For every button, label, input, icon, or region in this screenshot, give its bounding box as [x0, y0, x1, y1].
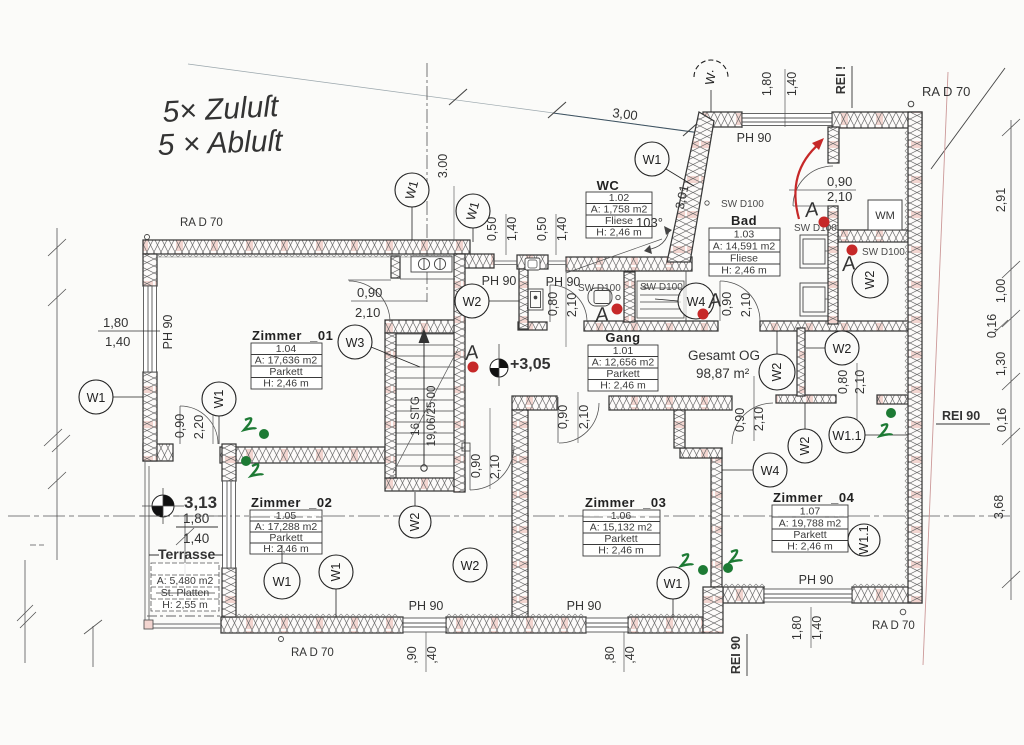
symbol circle W4 gang [655, 283, 714, 319]
svg-text:WC: WC [597, 178, 620, 193]
svg-text:,40: ,40 [425, 646, 439, 663]
symbol circle W1.1 z4 [829, 417, 908, 453]
symbol circle W2 mid [806, 331, 859, 365]
door corridor to Zimmer_02/03 [462, 408, 514, 490]
svg-text:Fliese: Fliese [605, 215, 633, 227]
svg-text:2,91: 2,91 [994, 188, 1008, 212]
svg-text:3,68: 3,68 [992, 495, 1006, 519]
svg-text:3,00: 3,00 [612, 105, 639, 123]
svg-text:H: 2,46 m: H: 2,46 m [787, 541, 833, 553]
svg-text:WM: WM [875, 210, 895, 222]
symbol circle W4 z4 [722, 453, 787, 487]
symbol circle W1 z2 rotated [319, 555, 353, 617]
svg-text:A: 12,656 m2: A: 12,656 m2 [592, 357, 655, 369]
symbol circle W2 zimmer02 [453, 548, 487, 582]
svg-text:98,87 m²: 98,87 m² [696, 366, 750, 381]
wall top PH90 left piece [703, 112, 742, 127]
wall divider Zimmer_02/03 [512, 410, 528, 617]
annotation red arrow bad [795, 143, 820, 219]
annotation red A bad [803, 198, 820, 222]
wall WC diagonal [667, 112, 714, 262]
wall left lower [143, 372, 157, 461]
window Zimmer_02 left [223, 481, 236, 568]
svg-text:1.06: 1.06 [611, 510, 632, 522]
symbol circle W3 [338, 325, 420, 367]
wall stair bottom band [385, 478, 465, 491]
svg-text:W1.1: W1.1 [857, 525, 871, 554]
annotation green Z pair z2 top a [244, 418, 256, 430]
svg-text:1.03: 1.03 [734, 229, 755, 241]
svg-text:Zimmer _03: Zimmer _03 [585, 495, 666, 510]
node Gang left partition line [685, 271, 687, 323]
wall stair top band [385, 320, 465, 333]
annotation green Z pair z2 top b [241, 456, 251, 466]
table Zimmer_01 [251, 343, 322, 389]
table Terrasse [151, 563, 219, 611]
svg-text:,90: ,90 [405, 646, 419, 663]
table Zimmer_03 [583, 510, 660, 556]
node WC corner angle line [566, 239, 662, 273]
svg-text:W·: W· [703, 68, 720, 86]
svg-text:1,80: 1,80 [103, 315, 128, 330]
svg-text:W1: W1 [643, 153, 662, 167]
wall divider Zimmer_03/04 [711, 458, 722, 587]
svg-text:2,10: 2,10 [565, 293, 579, 317]
symbol circle W1.1 right rotated [848, 524, 880, 556]
wall left upper [143, 254, 157, 286]
svg-text:3.00: 3.00 [436, 154, 450, 178]
symbol circle W2 z4 rotated [788, 403, 822, 463]
svg-text:RA D 70: RA D 70 [180, 217, 223, 229]
svg-text:PH 90: PH 90 [799, 573, 834, 587]
svg-text:16 STG: 16 STG [410, 396, 422, 436]
svg-text:0,90: 0,90 [556, 405, 570, 429]
svg-text:1,80: 1,80 [790, 616, 804, 640]
svg-text:2,10: 2,10 [488, 455, 502, 479]
label +3,05 benchmark [490, 344, 551, 386]
table Bad [709, 228, 780, 276]
symbol circle W1 z3 [657, 567, 689, 617]
svg-text:+3,05: +3,05 [510, 356, 551, 373]
node stair axis vertical dash-dot [426, 63, 428, 302]
svg-text:0,90: 0,90 [173, 414, 187, 438]
svg-text:1,80: 1,80 [760, 72, 774, 96]
symbol circle W2 corridor [455, 284, 519, 318]
svg-text:Zimmer _04: Zimmer _04 [773, 490, 855, 505]
wall stair left [385, 333, 396, 478]
svg-text:1.02: 1.02 [609, 192, 630, 204]
wall corridor sink vertical [519, 269, 528, 329]
svg-text:W2: W2 [863, 271, 877, 290]
svg-text:,40: ,40 [623, 646, 637, 663]
svg-text:W1: W1 [273, 575, 292, 589]
svg-text:W1: W1 [212, 390, 226, 409]
wall corridor top left piece [455, 254, 494, 268]
window Zimmer_04 bottom [764, 589, 852, 602]
symbol circle W dot top dashed [694, 60, 728, 112]
svg-text:RA D 70: RA D 70 [922, 84, 970, 99]
symbol circle W1 terrasse area [264, 545, 300, 599]
node axis top leader line 3,00 [188, 64, 710, 136]
annotation red A gang toilet [593, 303, 610, 327]
svg-text:Parkett: Parkett [269, 366, 302, 378]
svg-text:A: 14,591 m2: A: 14,591 m2 [713, 241, 776, 253]
annotation green Z pair z3 [681, 554, 693, 566]
node right dimension line [994, 119, 1020, 600]
svg-text:A: A [706, 289, 723, 313]
door sliding corridor 2 [548, 261, 566, 265]
fixture corridor washbasin [527, 289, 543, 310]
svg-text:Terrasse: Terrasse [158, 546, 216, 562]
svg-text:1.07: 1.07 [800, 506, 821, 518]
svg-text:SW D100: SW D100 [640, 282, 683, 293]
svg-text:Gang: Gang [605, 330, 640, 345]
svg-text:1.04: 1.04 [276, 343, 297, 355]
wall Zimmer_04 top right [877, 395, 908, 404]
door Bad [793, 166, 833, 206]
door Zimmer_01/02 [180, 406, 218, 444]
svg-text:H: 2,46 m: H: 2,46 m [263, 378, 309, 390]
symbol circle W2 gesamt rotated [759, 331, 795, 390]
svg-text:1.01: 1.01 [613, 345, 634, 357]
svg-text:2,10: 2,10 [739, 293, 753, 317]
door arc Zimmer_01 entry [348, 280, 391, 322]
svg-text:SW D100: SW D100 [721, 199, 764, 210]
door WC [550, 285, 587, 322]
wall step vertical [674, 410, 685, 448]
annotation red A stair [463, 341, 480, 365]
fixture kitchen counter circles [400, 256, 455, 279]
wall WC bottom [566, 257, 692, 271]
svg-text:RA D 70: RA D 70 [291, 647, 334, 659]
node terrace corner post [144, 620, 153, 629]
door Gang to Zimmer_03 [558, 392, 599, 443]
node angle arc 103 [644, 226, 672, 254]
svg-text:Bad: Bad [731, 213, 757, 228]
wall Zimmer_02 left upper [222, 444, 236, 481]
svg-text:2,10: 2,10 [853, 370, 867, 394]
door sliding corridor 1 [494, 261, 517, 265]
wall bottom segment c [628, 617, 703, 633]
door arc Gang bottom to Zimmer_04 [732, 403, 773, 444]
svg-text:W4: W4 [761, 464, 780, 478]
svg-text:A: A [463, 341, 480, 365]
svg-text:W3: W3 [346, 336, 365, 350]
wall Zimmer_04 bottom right [852, 587, 922, 603]
svg-text:A: 5,480 m2: A: 5,480 m2 [157, 575, 214, 587]
svg-text:1,40: 1,40 [810, 616, 824, 640]
wall Bad door jamb [828, 127, 839, 163]
table Gang [588, 345, 658, 391]
wall left return stub [143, 444, 173, 461]
svg-text:W2: W2 [798, 437, 812, 456]
wall top Zimmer_01 [143, 240, 470, 254]
svg-text:2,10: 2,10 [577, 405, 591, 429]
wall Zimmer_02 left lower [222, 568, 236, 617]
svg-text:0,90: 0,90 [357, 285, 382, 300]
wall step horizontal [680, 448, 722, 458]
symbol circle W1 zimmer01 rotated [202, 382, 236, 444]
svg-text:SW D100: SW D100 [578, 283, 621, 294]
svg-text:A: A [593, 303, 610, 327]
svg-text:2,10: 2,10 [355, 305, 380, 320]
node insulation sawtooth right wall [905, 130, 908, 580]
node insulation sawtooth top wall [157, 256, 455, 258]
door arc Gang to Zimmer_04 [720, 281, 760, 321]
svg-text:PH 90: PH 90 [546, 275, 581, 289]
wall bottom segment a [221, 617, 403, 633]
svg-text:1,30: 1,30 [994, 352, 1008, 376]
wall Gang top right segment [760, 321, 908, 331]
svg-text:H: 2,46 m: H: 2,46 m [600, 380, 646, 392]
svg-text:REI !: REI ! [834, 66, 848, 94]
wall Bad vanity [828, 206, 838, 324]
svg-text:Parkett: Parkett [604, 533, 637, 545]
svg-text:Parkett: Parkett [606, 368, 639, 380]
symbol circle W2 wm room rotated [852, 262, 888, 298]
wall outlines group [143, 112, 922, 633]
svg-text:1,40: 1,40 [555, 217, 569, 241]
svg-text:Fliese: Fliese [730, 253, 758, 265]
label 3,13 benchmark [142, 488, 218, 546]
fixture corridor small sink in block [525, 258, 540, 270]
wall Gang top left segment [584, 321, 718, 331]
node top right boundary lines [931, 68, 1005, 169]
fixture shelf rack [637, 281, 684, 318]
svg-text:1,40: 1,40 [785, 72, 799, 96]
svg-text:H: 2,46 m: H: 2,46 m [721, 265, 767, 277]
svg-text:W4: W4 [687, 295, 706, 309]
svg-text:A: A [840, 252, 857, 276]
wall corridor sink block [517, 255, 548, 269]
svg-text:0,90: 0,90 [733, 408, 747, 432]
wall Zimmer_04 bottom left [723, 587, 764, 603]
svg-text:1,00: 1,00 [994, 279, 1008, 303]
svg-text:103°: 103° [636, 215, 663, 230]
svg-text:2,20: 2,20 [192, 415, 206, 439]
node dimension tick line corridor top [453, 186, 455, 241]
svg-text:W1: W1 [87, 391, 106, 405]
wall Zimmer_03 top right [609, 396, 732, 410]
svg-text:H: 2,55 m: H: 2,55 m [162, 599, 208, 611]
svg-text:PH 90: PH 90 [737, 131, 772, 145]
wall counter stub [391, 256, 400, 278]
wall WC toilet divider [624, 272, 635, 322]
svg-text:W1: W1 [664, 577, 683, 591]
node centerline over tables [140, 516, 848, 517]
window bottom 1 [403, 618, 446, 632]
svg-text:REI 90: REI 90 [729, 636, 743, 674]
annotation red A w4 [706, 289, 723, 313]
svg-text:RA D 70: RA D 70 [872, 620, 915, 632]
window bottom 2 [586, 618, 628, 632]
svg-text:3,13: 3,13 [184, 493, 217, 512]
annotation green Z pair z4 right [886, 408, 896, 418]
svg-text:5 × Abluſt: 5 × Abluſt [157, 125, 285, 162]
svg-text:1,80: 1,80 [183, 511, 209, 526]
wall bottom segment b [446, 617, 586, 633]
label 0,90 2,20 near terrace vertical line [212, 415, 214, 444]
window top PH90 [742, 114, 832, 126]
svg-text:W2: W2 [408, 513, 422, 532]
svg-text:A: 1,758 m2: A: 1,758 m2 [591, 204, 648, 216]
svg-text:A: 19,788 m2: A: 19,788 m2 [779, 518, 842, 530]
svg-text:5× Zuluſt: 5× Zuluſt [162, 90, 281, 129]
svg-text:W2: W2 [770, 363, 784, 382]
svg-text:W1.1: W1.1 [832, 429, 861, 443]
annotation green Z pair z4 left [723, 563, 733, 573]
symbol circle W1 top a rotated [395, 173, 429, 240]
table Zimmer_04 [772, 505, 848, 552]
svg-text:0,90: 0,90 [720, 292, 734, 316]
terrace boundary [145, 461, 221, 629]
svg-text:Parkett: Parkett [793, 529, 826, 541]
symbol circle W1 wc diagonal [635, 142, 694, 186]
svg-text:SW D100: SW D100 [862, 247, 905, 258]
svg-text:1,40: 1,40 [105, 334, 130, 349]
svg-text:REI 90: REI 90 [942, 409, 980, 423]
svg-text:H: 2,46 m: H: 2,46 m [598, 545, 644, 557]
svg-text:0,16: 0,16 [985, 314, 999, 338]
fixture toilet [588, 288, 620, 306]
svg-text:0,50: 0,50 [535, 217, 549, 241]
wall Zimmer_03 top left [512, 396, 557, 410]
wall corridor sink bottom piece [518, 322, 547, 330]
annotation red A wm [840, 252, 857, 276]
svg-text:0,90: 0,90 [469, 454, 483, 478]
svg-text:PH 90: PH 90 [482, 274, 517, 288]
wall right exterior [908, 112, 922, 603]
stair treads [396, 334, 454, 466]
node main horizontal centerline [8, 515, 1012, 517]
svg-text:PH 90: PH 90 [161, 315, 175, 350]
node WC door leader line [565, 258, 567, 347]
svg-text:W2: W2 [461, 559, 480, 573]
wall Zimmer_04 top left [776, 395, 836, 403]
node insulation sawtooth bottom walls [236, 614, 398, 617]
table WC [586, 192, 652, 238]
svg-text:0,16: 0,16 [995, 408, 1009, 432]
svg-text:W2: W2 [833, 342, 852, 356]
svg-text:PH 90: PH 90 [567, 599, 602, 613]
svg-text:,80: ,80 [603, 646, 617, 663]
svg-text:SW D100: SW D100 [794, 223, 837, 234]
svg-text:19,06/25,00: 19,06/25,00 [426, 386, 438, 447]
svg-text:A: 17,636 m2: A: 17,636 m2 [255, 355, 318, 367]
fixture Bad vanity 1 [800, 235, 828, 268]
svg-text:A: A [803, 198, 820, 222]
wall top right piece [832, 112, 922, 128]
node window end ticks top [403, 112, 852, 633]
svg-text:Gesamt OG: Gesamt OG [688, 348, 760, 363]
wall divider Zimmer_01/02 [220, 447, 385, 463]
node handwriting 5x Zuluft / 5x Abluft [157, 90, 285, 162]
fixture WM box [868, 200, 902, 230]
svg-text:0,80: 0,80 [546, 292, 560, 316]
fixture Bad vanity 2 [800, 283, 828, 316]
stair break line [393, 349, 458, 473]
svg-text:1,40: 1,40 [183, 531, 209, 546]
wall WM room bottom [838, 230, 908, 242]
svg-text:1,40: 1,40 [505, 217, 519, 241]
symbol circle W1 left [79, 380, 143, 414]
wall stair right [454, 254, 465, 492]
table Zimmer_02 [250, 510, 322, 554]
svg-text:A: 15,132 m2: A: 15,132 m2 [590, 522, 653, 534]
stair up arrow [419, 330, 429, 471]
svg-text:0,90: 0,90 [827, 174, 852, 189]
svg-text:PH 90: PH 90 [409, 599, 444, 613]
node left survey line [17, 228, 194, 667]
window left wall [144, 286, 157, 372]
svg-text:W1: W1 [329, 563, 343, 582]
svg-text:W2: W2 [463, 295, 482, 309]
svg-text:H: 2,46 m: H: 2,46 m [263, 543, 309, 555]
svg-text:Zimmer _01: Zimmer _01 [252, 328, 333, 343]
svg-text:0,80: 0,80 [836, 370, 850, 394]
wall W2 room left [797, 328, 805, 396]
svg-text:2,10: 2,10 [827, 189, 852, 204]
svg-text:Zimmer _02: Zimmer _02 [251, 495, 332, 510]
symbol circle W2 stair rotated [399, 492, 431, 538]
symbol circle W1 top b rotated [456, 194, 490, 242]
wall bottom step connector [703, 587, 723, 633]
